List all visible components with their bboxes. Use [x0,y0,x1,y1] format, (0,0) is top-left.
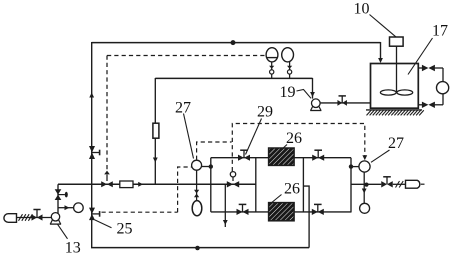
check on right riser [287,66,292,69]
label leader 10 [370,15,396,37]
valve lower-right of module [312,209,318,215]
label leader 17 [408,38,433,75]
circle 27 right [359,161,370,172]
flow arrow to gauge [65,205,70,210]
pressure gauge at pump 13 [74,203,84,213]
inline filter on main header [120,181,133,188]
dashed line: left control drop [106,56,108,171]
label leader 27 right [371,150,390,162]
wire: drop to pump 19 [312,78,314,99]
valve upper-left of module [238,155,244,161]
valve tank loop lower [422,102,429,108]
node: junction dot on bottom return [195,246,200,251]
impeller blades [380,90,396,95]
node: junction dot on permeate line [364,183,368,187]
outlet capsule [406,180,420,188]
level pot left [266,48,278,62]
flow arrow down to pump 19 [310,92,315,97]
wire: right collector riser [350,158,352,212]
wire: outlet line after valve [393,183,406,185]
label leader 29 [246,119,262,155]
svg-text:26: 26 [286,130,302,147]
wire: circle 27 right inlet [351,166,360,168]
svg-text:19: 19 [280,84,296,101]
flowmeter [153,123,159,138]
three-way control valve [101,181,107,187]
sample bulb ellipse [192,201,202,216]
wire: mid branch connector [255,158,257,212]
wire: bottom return riser [303,186,309,248]
wire: top feed drop into tank [380,42,382,59]
wire: right branch connector [302,158,304,212]
dashed line: level control upper [107,55,266,57]
svg-text:25: 25 [117,221,133,238]
motor 10 [390,37,404,46]
arrow into circle 27 right [362,155,367,160]
inlet capsule [4,214,17,223]
tank 17 [371,64,419,109]
valve at inlet [32,214,38,220]
level pot right [282,48,294,62]
agitator shaft [396,46,398,92]
wire: flowmeter drop line [154,78,156,184]
hose marks on inlet line [19,214,23,221]
valve upper-right of module [312,155,318,161]
wire: inlet suction line [17,217,52,219]
valve before tank [337,100,342,106]
svg-text:27: 27 [388,135,404,152]
valve 25 [89,208,95,214]
wire: left vertical main [91,42,93,248]
wire: tank loop upper [418,67,422,69]
wire: level pot left riser [271,62,273,79]
label leader 27 left [184,114,194,159]
svg-text:26: 26 [284,180,300,197]
wire: drain line with arrow [224,184,226,227]
node: junction dot circle 27 outlet [209,164,213,168]
pump 19 [312,99,321,108]
flow arrow below circle 27 right [362,189,367,194]
wire: pump 19 discharge to tank [316,102,371,104]
dashed line: control header top [232,124,364,172]
pump 13 [51,213,59,221]
wire: bottom return line [91,247,309,249]
dashed line: control riser to circle 27 [178,167,192,212]
check on left riser [269,66,274,69]
wire: upper membrane branch [211,157,351,159]
wire: gauge branch [58,207,74,209]
circulation device on tank loop [437,82,449,94]
flow arrow right on main header [138,182,143,187]
hose marks on outlet line [396,181,400,188]
small check on sample drop [194,190,199,194]
label leader 25 [95,220,112,228]
dashed line: circle 27 to control header [197,142,232,160]
wire: circle 27 left outlet [202,166,211,168]
flow arrow on top feed line [231,40,236,45]
wire: main feed header [58,183,256,185]
wire: pump 13 riser [57,184,59,213]
check valve on pump 13 riser [55,189,62,194]
label leader 13 [58,224,68,239]
node: junction dot circle 27 right inlet [349,164,353,168]
actuated valve on permeate join [227,181,233,187]
wire: upper recycle line [155,77,312,79]
wire: tank loop lower [442,94,444,105]
svg-text:17: 17 [432,22,448,39]
ground hatching under tank [366,109,422,111]
wire: top feed line [92,42,381,44]
label leader 19 [297,90,312,99]
flow arrow into tank top [378,58,383,63]
wire: circle 27 left bottom link [196,170,198,184]
circle 27 left [192,160,202,170]
flow arrow up on left vertical [89,93,94,98]
label leader 26 upper [281,145,288,151]
wire: left branch distributor [210,158,212,212]
membrane module 26 lower [269,203,295,221]
svg-text:29: 29 [257,103,273,120]
valve lower-left of module [237,209,243,215]
svg-text:10: 10 [354,0,370,17]
membrane module 26 upper [269,148,295,165]
wire: sample drop [196,184,198,201]
dashed line: valve 25 control run [102,211,178,213]
valve tank loop upper [422,65,429,71]
valve on left vertical upper [89,146,95,153]
label leader 26 lower [271,195,282,204]
wire: lower membrane branch [211,211,352,213]
svg-text:13: 13 [65,240,81,255]
wire: circle 27 right drop [363,172,365,203]
wire: permeate outlet line [351,183,381,185]
svg-text:27: 27 [175,99,191,116]
flow arrow down on flowmeter line [153,158,158,163]
pressure gauge below circle 27 right [360,203,370,213]
outlet valve [381,181,387,187]
wire: level pot right riser [289,62,291,79]
